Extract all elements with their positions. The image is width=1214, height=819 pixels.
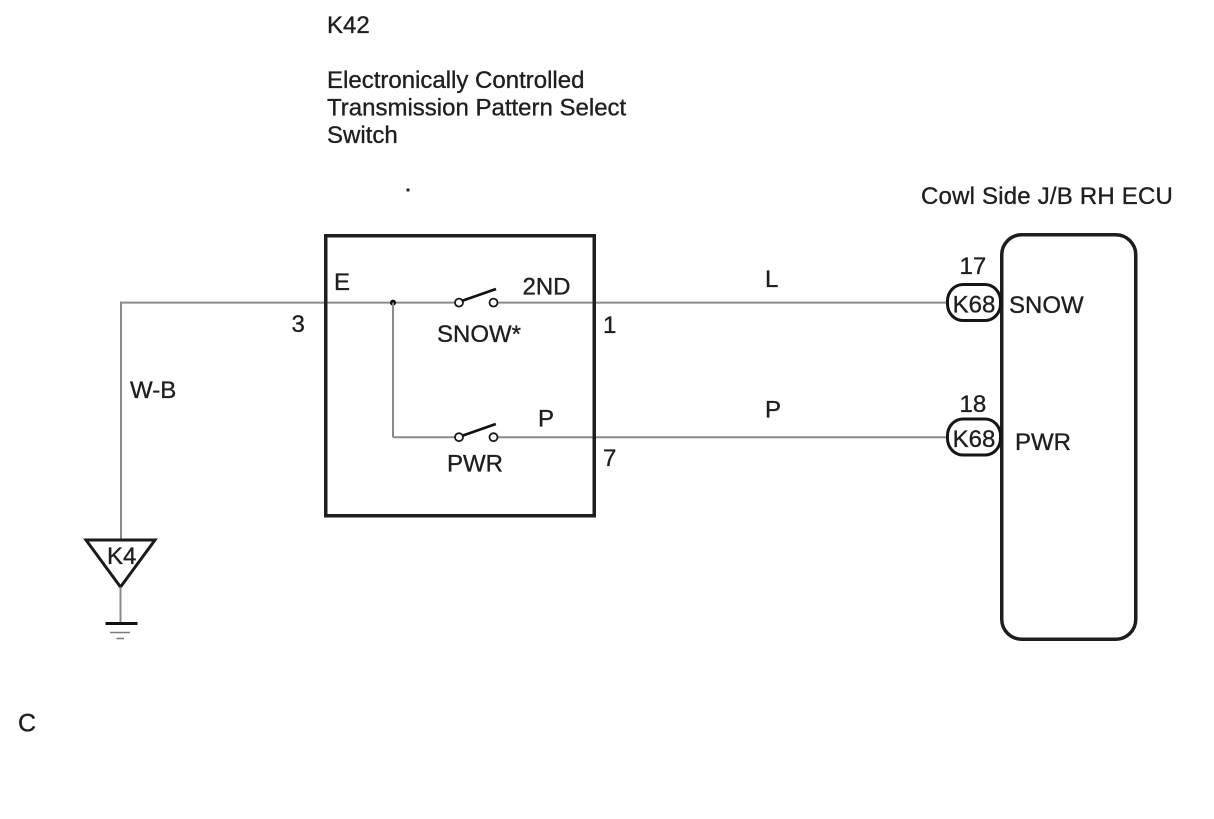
svg-text:1: 1 bbox=[603, 312, 616, 339]
component K42 name label bbox=[327, 67, 627, 149]
svg-text:K68: K68 bbox=[953, 292, 996, 319]
svg-text:Transmission Pattern Select: Transmission Pattern Select bbox=[327, 95, 627, 122]
stray dot mark bbox=[407, 189, 410, 192]
svg-text:2ND: 2ND bbox=[523, 274, 571, 301]
wire from junction down to PWR switch bbox=[392, 303, 394, 438]
svg-text:E: E bbox=[334, 269, 350, 296]
svg-text:7: 7 bbox=[603, 445, 616, 472]
svg-text:Electronically Controlled: Electronically Controlled bbox=[327, 67, 584, 94]
svg-text:PWR: PWR bbox=[447, 451, 503, 478]
wire junction to PWR switch contact bbox=[393, 436, 455, 438]
svg-text:K4: K4 bbox=[107, 543, 136, 570]
switch PWR blade bbox=[463, 424, 496, 436]
switch SNOW* contacts bbox=[455, 299, 498, 307]
svg-text:K42: K42 bbox=[327, 12, 370, 39]
wire L from switch pin 1 to K68 pin 17 bbox=[497, 302, 948, 304]
svg-text:L: L bbox=[765, 266, 778, 293]
svg-text:P: P bbox=[538, 406, 554, 433]
switch PWR contacts bbox=[455, 433, 498, 441]
connector K68 oval pin 18 bbox=[948, 419, 1001, 455]
junction dot node E bbox=[390, 300, 396, 306]
svg-text:SNOW: SNOW bbox=[1009, 292, 1084, 319]
switch SNOW* blade bbox=[462, 289, 497, 301]
ground connector K4 triangle bbox=[86, 540, 155, 587]
svg-text:K68: K68 bbox=[953, 426, 996, 453]
svg-text:SNOW*: SNOW* bbox=[437, 321, 521, 348]
svg-text:P: P bbox=[765, 397, 781, 424]
svg-text:3: 3 bbox=[292, 311, 305, 338]
ground symbol bbox=[106, 624, 138, 639]
connector K68 oval pin 17 bbox=[948, 285, 1001, 321]
svg-text:C: C bbox=[18, 710, 36, 738]
wire W-B horizontal segment from pin 3 bbox=[120, 302, 455, 304]
wire from K4 to ground bbox=[120, 587, 122, 622]
switch box K42 outline bbox=[326, 236, 595, 516]
wire P from switch pin 7 to K68 pin 18 bbox=[497, 436, 948, 438]
svg-text:PWR: PWR bbox=[1015, 429, 1071, 456]
ECU block Cowl Side J/B RH bbox=[1002, 235, 1136, 640]
svg-text:17: 17 bbox=[960, 253, 987, 280]
svg-text:W-B: W-B bbox=[130, 377, 176, 404]
wire W-B vertical segment to ground connector bbox=[120, 302, 122, 540]
svg-text:Switch: Switch bbox=[327, 122, 398, 149]
svg-text:Cowl Side J/B RH ECU: Cowl Side J/B RH ECU bbox=[921, 183, 1173, 210]
svg-text:18: 18 bbox=[960, 391, 987, 418]
